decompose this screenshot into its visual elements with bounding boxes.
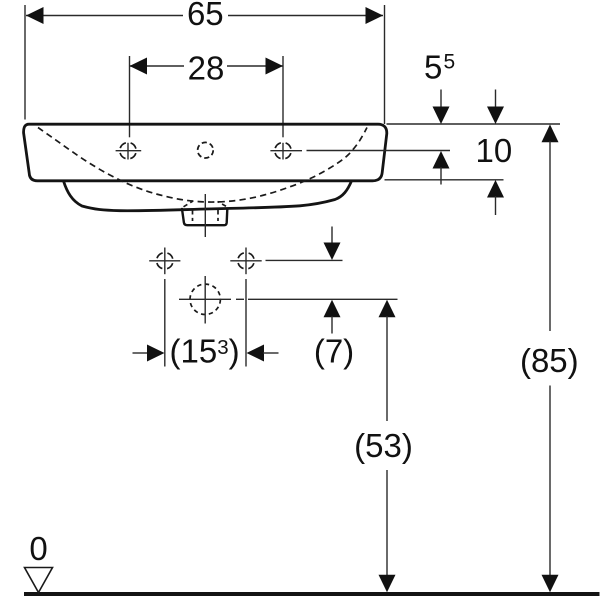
svg-text:10: 10 xyxy=(476,132,513,169)
svg-text:): ) xyxy=(229,333,240,370)
svg-text:(53): (53) xyxy=(354,427,413,464)
svg-text:28: 28 xyxy=(188,50,225,87)
svg-text:65: 65 xyxy=(187,0,224,32)
svg-text:(85): (85) xyxy=(520,342,579,379)
svg-text:0: 0 xyxy=(29,530,47,567)
svg-text:(7): (7) xyxy=(314,333,354,370)
svg-text:5: 5 xyxy=(444,50,456,73)
svg-text:3: 3 xyxy=(217,336,228,359)
svg-text:5: 5 xyxy=(424,48,442,85)
svg-text:(15: (15 xyxy=(170,333,218,370)
